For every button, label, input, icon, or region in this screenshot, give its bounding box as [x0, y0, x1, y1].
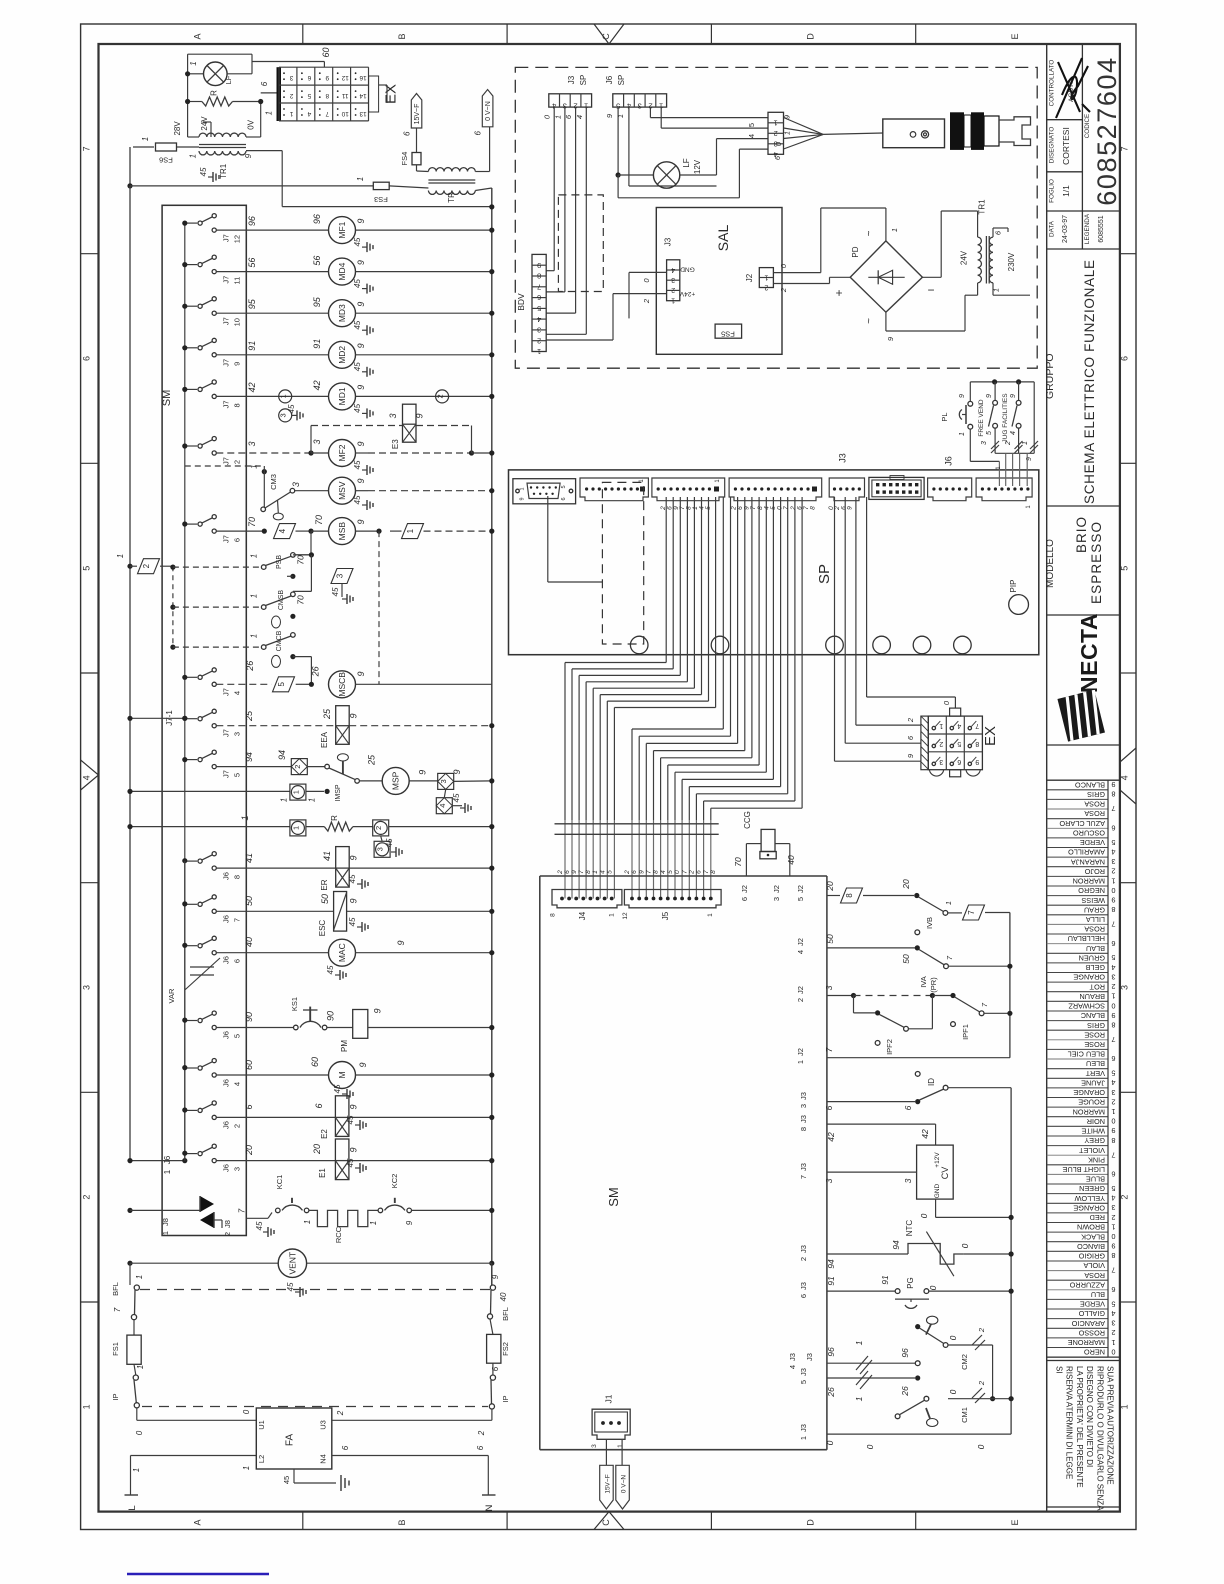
switch contact: [185, 264, 197, 266]
ground net 45: [362, 504, 367, 506]
svg-text:ROUGE: ROUGE: [1078, 1098, 1105, 1107]
svg-text:45: 45: [353, 403, 362, 412]
SP connector header 4: [729, 478, 822, 501]
svg-text:96: 96: [312, 214, 322, 224]
svg-text:1: 1: [1111, 1222, 1115, 1231]
svg-text:6: 6: [1120, 356, 1130, 361]
svg-text:2: 2: [779, 287, 788, 293]
SP mounting holes: [630, 636, 648, 654]
svg-text:9: 9: [415, 413, 425, 418]
motor MD2: [329, 341, 356, 368]
ground net 45: [362, 412, 367, 414]
wire IP to FA U1: [136, 1408, 138, 1420]
svg-text:9: 9: [356, 385, 366, 390]
svg-text:PINK: PINK: [1088, 1155, 1105, 1164]
svg-text:9: 9: [356, 519, 366, 524]
svg-text:50: 50: [320, 894, 330, 904]
svg-text:2: 2: [799, 1257, 808, 1261]
terminal N wire from FA N4: [332, 1455, 489, 1457]
svg-text:SM: SM: [161, 390, 173, 407]
svg-text:3: 3: [1111, 857, 1115, 866]
svg-text:1: 1: [249, 594, 258, 598]
svg-text:EEA: EEA: [320, 731, 329, 748]
switch contact: [185, 222, 197, 224]
terminal 3: [374, 841, 390, 857]
mains filter FA: [256, 1408, 332, 1469]
SP connector IDC: [869, 477, 924, 499]
svg-text:45: 45: [385, 838, 394, 847]
transformer TR1 control: [199, 133, 246, 137]
svg-text:2: 2: [1111, 867, 1115, 876]
svg-text:1: 1: [995, 466, 1002, 470]
svg-text:BLEU: BLEU: [1086, 1059, 1105, 1068]
svg-text:70: 70: [247, 517, 257, 527]
svg-text:NOIR: NOIR: [1087, 1117, 1105, 1126]
motor MD3: [329, 300, 356, 327]
svg-text:GRIS: GRIS: [1087, 790, 1105, 799]
svg-text:7: 7: [233, 918, 242, 922]
mechanical link BFL dashed: [140, 1289, 490, 1291]
svg-text:0: 0: [1111, 1232, 1115, 1241]
svg-text:40: 40: [786, 855, 796, 865]
svg-text:8: 8: [233, 403, 242, 407]
svg-text:6: 6: [314, 1103, 324, 1108]
switch IMSP cam: [337, 754, 348, 761]
svg-text:1: 1: [163, 1169, 172, 1174]
switch contact: [185, 1067, 197, 1069]
svg-text:J6: J6: [163, 1155, 172, 1164]
svg-text:5: 5: [986, 431, 993, 435]
ground net 45: [362, 469, 367, 471]
svg-text:24V: 24V: [200, 116, 209, 131]
svg-text:GREY: GREY: [1084, 1136, 1105, 1145]
svg-text:95: 95: [312, 296, 322, 307]
plug cable fan: [784, 118, 824, 135]
svg-text:L2: L2: [257, 1455, 266, 1463]
svg-text:1/1: 1/1: [1061, 185, 1071, 197]
svg-text:BIANCO: BIANCO: [1077, 1242, 1105, 1251]
svg-text:MODELLO: MODELLO: [1045, 539, 1056, 588]
svg-text:2: 2: [906, 717, 915, 723]
svg-text:CV: CV: [940, 1167, 950, 1180]
svg-text:ROSA: ROSA: [1084, 1271, 1105, 1280]
ground net 45: [362, 329, 367, 331]
svg-text:GRIS: GRIS: [1087, 1021, 1105, 1030]
svg-text:9: 9: [358, 1062, 368, 1067]
svg-text:45: 45: [353, 279, 362, 288]
title block column separator: [1046, 44, 1048, 1512]
svg-text:5: 5: [233, 773, 242, 777]
svg-text:ESPRESSO: ESPRESSO: [1089, 521, 1104, 604]
net flag 3: [331, 569, 353, 584]
svg-text:2: 2: [537, 336, 541, 345]
svg-text:1: 1: [291, 790, 300, 794]
indicator 1 on MD1 row: [279, 390, 292, 403]
svg-text:26: 26: [826, 1387, 836, 1398]
svg-text:60: 60: [321, 47, 331, 57]
svg-text:5: 5: [1111, 838, 1115, 847]
svg-text:A: A: [193, 33, 203, 39]
fuse FS4: [416, 128, 418, 153]
motor MSV: [329, 477, 356, 504]
svg-text:0 V~N: 0 V~N: [621, 1475, 628, 1494]
svg-text:ER: ER: [320, 879, 329, 890]
svg-text:94: 94: [244, 752, 254, 762]
svg-text:SP: SP: [816, 564, 833, 584]
svg-text:9: 9: [348, 713, 358, 718]
svg-text:12V: 12V: [693, 159, 702, 174]
svg-text:CCG: CCG: [743, 811, 752, 829]
svg-text:6: 6: [1111, 939, 1115, 948]
svg-text:20: 20: [244, 1145, 254, 1156]
svg-text:2: 2: [293, 765, 302, 769]
svg-text:BRIO: BRIO: [1074, 516, 1089, 553]
svg-text:2: 2: [774, 129, 778, 138]
svg-text:4: 4: [1120, 775, 1130, 780]
svg-text:42: 42: [247, 382, 257, 392]
svg-text:5: 5: [1111, 1299, 1115, 1308]
svg-text:6085551: 6085551: [1098, 215, 1105, 242]
svg-text:41: 41: [244, 853, 254, 863]
expansion block EX: [921, 716, 928, 770]
wire 28V tap: [188, 136, 199, 138]
svg-text:24-03-97: 24-03-97: [1062, 215, 1069, 243]
fan motor VENT: [127, 1261, 132, 1266]
svg-text:2: 2: [796, 998, 805, 1002]
svg-text:GND: GND: [934, 1183, 941, 1198]
svg-text:7: 7: [703, 870, 710, 874]
svg-text:1: 1: [356, 177, 365, 181]
svg-text:8: 8: [1111, 790, 1115, 799]
svg-text:LA PROPRIETA' DEL PRESENTE: LA PROPRIETA' DEL PRESENTE: [1075, 1366, 1084, 1488]
svg-text:GIALLO: GIALLO: [1078, 1309, 1105, 1318]
wire PD ~ bottom to TR1: [885, 312, 887, 331]
svg-text:(PR): (PR): [929, 977, 938, 993]
svg-text:GRUEN: GRUEN: [1079, 954, 1105, 963]
svg-text:SI: SI: [1055, 1366, 1064, 1374]
svg-text:4: 4: [671, 266, 675, 273]
transformer TR1 24V 230V: [978, 237, 982, 283]
svg-text:ROSE: ROSE: [1084, 1030, 1105, 1039]
svg-text:6: 6: [1111, 823, 1115, 832]
svg-text:91: 91: [826, 1276, 836, 1286]
svg-text:BFL: BFL: [501, 1307, 510, 1321]
svg-text:8: 8: [1111, 905, 1115, 914]
cam switch CM3: [262, 469, 267, 474]
switch contact: [185, 347, 197, 349]
svg-text:45: 45: [348, 874, 357, 883]
svg-text:6: 6: [233, 538, 242, 542]
dashed enclosure BDV group: [515, 67, 1037, 368]
svg-text:2: 2: [233, 460, 242, 464]
svg-text:E3: E3: [391, 439, 400, 449]
svg-text:L: L: [127, 1505, 138, 1510]
ground net 45: [362, 288, 367, 290]
svg-text:7: 7: [681, 870, 688, 874]
ground net 45: [342, 1093, 347, 1095]
svg-text:VERT: VERT: [1085, 1069, 1105, 1078]
svg-text:3: 3: [638, 102, 642, 111]
svg-text:9: 9: [356, 260, 366, 265]
SP connector header 3: [652, 478, 725, 501]
svg-text:J7: J7: [222, 276, 231, 284]
svg-text:4: 4: [1111, 1194, 1115, 1203]
svg-text:IVA: IVA: [919, 976, 928, 988]
svg-text:CODICE: CODICE: [1084, 114, 1091, 139]
net flag 1: [402, 524, 424, 539]
svg-text:8: 8: [585, 870, 592, 874]
svg-text:MD4: MD4: [337, 262, 347, 280]
svg-text:3: 3: [1111, 1088, 1115, 1097]
svg-text:BFL: BFL: [111, 1282, 120, 1296]
svg-text:2: 2: [939, 740, 943, 747]
ground net 45: [263, 1231, 268, 1233]
svg-text:IVB: IVB: [925, 917, 934, 929]
svg-text:2: 2: [436, 394, 445, 398]
svg-text:230V: 230V: [1007, 252, 1016, 271]
svg-text:26: 26: [900, 1386, 910, 1397]
svg-text:AZZURRO: AZZURRO: [1069, 1280, 1105, 1289]
svg-text:PSB: PSB: [276, 555, 283, 569]
cam switch CM2: [927, 1316, 938, 1324]
svg-text:8: 8: [710, 870, 717, 874]
svg-text:10: 10: [233, 318, 242, 326]
svg-text:1: 1: [799, 1436, 808, 1440]
svg-text:0: 0: [825, 1440, 835, 1445]
svg-text:J3: J3: [799, 1424, 808, 1432]
centre fold mark top: [594, 24, 624, 44]
svg-text:E: E: [1010, 33, 1020, 39]
svg-text:5: 5: [1111, 1184, 1115, 1193]
svg-text:90: 90: [326, 1011, 336, 1021]
svg-text:1: 1: [617, 1444, 624, 1448]
svg-text:9: 9: [1111, 1242, 1115, 1251]
svg-text:ROSE: ROSE: [1084, 1040, 1105, 1049]
svg-text:9: 9: [356, 478, 366, 483]
svg-text:PG: PG: [906, 1277, 915, 1289]
svg-text:J3: J3: [805, 1353, 814, 1361]
switch IVB: [914, 893, 919, 898]
svg-text:BLANC: BLANC: [1081, 1011, 1105, 1020]
svg-text:2: 2: [142, 563, 151, 568]
svg-text:EX: EX: [982, 726, 999, 746]
svg-text:1: 1: [1022, 441, 1029, 445]
connector J4: [552, 890, 622, 908]
svg-text:45: 45: [348, 917, 357, 926]
relay coil PM: [353, 1010, 368, 1039]
svg-text:28V: 28V: [173, 121, 182, 136]
svg-text:BLAU: BLAU: [1086, 944, 1105, 953]
terminal 2: [291, 759, 307, 775]
svg-text:2: 2: [477, 1430, 486, 1436]
svg-text:8: 8: [1111, 1251, 1115, 1260]
connector DB9: [513, 479, 576, 504]
svg-text:BLACK: BLACK: [1081, 1232, 1105, 1241]
ground net 45: [362, 371, 367, 373]
svg-text:GRIGIO: GRIGIO: [1078, 1252, 1105, 1261]
svg-text:SM: SM: [606, 1187, 621, 1207]
svg-text:41: 41: [322, 851, 332, 861]
svg-text:9: 9: [356, 302, 366, 307]
svg-text:0: 0: [135, 1430, 144, 1435]
svg-text:9: 9: [1010, 394, 1017, 398]
svg-text:NTC: NTC: [905, 1220, 914, 1237]
svg-text:7: 7: [1111, 920, 1115, 929]
switch IP left: [133, 1375, 138, 1380]
svg-text:N4: N4: [319, 1454, 328, 1464]
FA ground: [293, 1469, 295, 1483]
motor MSB: [329, 518, 356, 545]
SP connector J6: [976, 478, 1032, 501]
row MSV net 3: [295, 490, 329, 492]
svg-text:1: 1: [406, 528, 415, 533]
svg-text:5: 5: [233, 1034, 242, 1038]
svg-text:45: 45: [452, 793, 461, 802]
svg-text:9: 9: [356, 441, 366, 446]
svg-text:NEGRO: NEGRO: [1078, 886, 1105, 895]
svg-text:26: 26: [245, 661, 255, 672]
svg-text:J2: J2: [796, 938, 805, 946]
svg-text:3: 3: [824, 1178, 834, 1183]
switch contact: [185, 305, 197, 307]
svg-text:1: 1: [854, 1340, 864, 1345]
svg-text:MARRON: MARRON: [1073, 1107, 1105, 1116]
svg-text:9: 9: [1111, 1126, 1115, 1135]
svg-text:4: 4: [1111, 1309, 1115, 1318]
flag 0 V~N bottom: [616, 1465, 630, 1509]
svg-text:1: 1: [280, 798, 289, 802]
svg-text:A: A: [193, 1519, 203, 1525]
svg-text:96: 96: [826, 1347, 836, 1357]
svg-text:4: 4: [660, 870, 667, 874]
switch IPF1: [955, 997, 980, 1012]
svg-text:9: 9: [975, 758, 979, 765]
svg-text:5: 5: [799, 1380, 808, 1384]
svg-text:50: 50: [244, 896, 254, 906]
EX top tab: [950, 708, 961, 716]
svg-text:45: 45: [346, 1158, 355, 1167]
legend number column divider: [1107, 780, 1109, 1357]
svg-text:6: 6: [740, 897, 749, 901]
svg-text:2: 2: [671, 286, 675, 293]
svg-text:J3: J3: [799, 1282, 808, 1290]
svg-text:9: 9: [1111, 780, 1115, 789]
switch contact: [185, 903, 197, 905]
svg-text:9: 9: [348, 1147, 358, 1152]
svg-text:J2: J2: [796, 1048, 805, 1056]
svg-text:9: 9: [1111, 896, 1115, 905]
svg-text:3: 3: [772, 897, 781, 901]
svg-text:26: 26: [311, 666, 321, 677]
svg-text:2: 2: [624, 870, 631, 875]
svg-text:94: 94: [891, 1240, 901, 1250]
svg-text:45: 45: [346, 1115, 355, 1124]
svg-text:12: 12: [233, 235, 242, 243]
svg-text:15V~F: 15V~F: [605, 1474, 612, 1493]
svg-text:45: 45: [199, 167, 208, 176]
svg-text:ESC: ESC: [318, 920, 327, 937]
svg-text:8: 8: [975, 740, 979, 747]
switch contact: [185, 523, 197, 525]
svg-text:RED: RED: [1090, 1213, 1105, 1222]
svg-text:OSCURO: OSCURO: [1073, 829, 1105, 838]
svg-text:60: 60: [310, 1057, 320, 1067]
CV output 0: [935, 1199, 937, 1217]
svg-text:J3: J3: [567, 75, 576, 84]
switch IP right: [490, 1375, 495, 1380]
svg-text:6: 6: [903, 1105, 913, 1110]
svg-text:1: 1: [279, 394, 288, 398]
svg-text:3: 3: [336, 573, 345, 578]
svg-text:1: 1: [136, 1365, 145, 1369]
svg-text:VERDE: VERDE: [1080, 1300, 1105, 1309]
svg-text:3: 3: [939, 758, 943, 765]
svg-text:IPF2: IPF2: [885, 1039, 894, 1055]
svg-text:NARANJA: NARANJA: [1071, 857, 1105, 866]
svg-text:2: 2: [764, 284, 768, 291]
svg-text:6: 6: [561, 497, 567, 500]
svg-text:CM3: CM3: [269, 474, 278, 490]
svg-text:7: 7: [113, 1307, 122, 1312]
svg-text:MD2: MD2: [337, 346, 347, 364]
svg-text:VIOLA: VIOLA: [1083, 1261, 1105, 1270]
svg-text:AGUTI: AGUTI: [1068, 82, 1075, 102]
svg-text:8: 8: [325, 92, 329, 99]
svg-text:PM: PM: [340, 1040, 349, 1052]
terminal 1: [290, 820, 306, 836]
svg-text:1: 1: [944, 901, 953, 905]
heater ER: [336, 847, 350, 888]
svg-text:1: 1: [249, 554, 258, 558]
EX bottom bumps: [929, 770, 943, 776]
svg-text:SCHWARZ: SCHWARZ: [1068, 1002, 1105, 1011]
svg-text:RCC: RCC: [334, 1226, 343, 1243]
svg-text:TR: TR: [447, 192, 456, 203]
service switches rail: [970, 381, 1034, 383]
ground net 45: [357, 926, 362, 928]
svg-text:RISERVA ATERMINI DI LEGGE: RISERVA ATERMINI DI LEGGE: [1065, 1366, 1074, 1479]
svg-text:7: 7: [238, 1208, 247, 1213]
svg-text:CM2: CM2: [960, 1354, 969, 1370]
svg-text:SP: SP: [579, 75, 588, 86]
svg-text:3: 3: [671, 276, 675, 283]
svg-text:MSB: MSB: [337, 522, 347, 541]
svg-text:6: 6: [341, 1445, 350, 1450]
svg-text:25: 25: [322, 708, 332, 720]
svg-text:6: 6: [307, 74, 311, 81]
svg-text:J8: J8: [223, 1220, 232, 1228]
svg-text:45: 45: [333, 1084, 342, 1093]
svg-text:8: 8: [810, 506, 817, 510]
switch CMCB: [170, 645, 175, 650]
connector J5: [624, 890, 721, 908]
svg-text:70: 70: [296, 555, 306, 565]
svg-text:9: 9: [571, 870, 578, 874]
svg-text:4: 4: [233, 1082, 242, 1086]
svg-text:25: 25: [244, 710, 254, 722]
svg-text:45: 45: [353, 495, 362, 504]
svg-text:42: 42: [312, 380, 322, 390]
svg-text:HELLBLAU: HELLBLAU: [1068, 934, 1105, 943]
motor MD4: [329, 258, 356, 285]
svg-text:9: 9: [348, 855, 358, 860]
svg-text:1: 1: [1111, 1338, 1115, 1347]
svg-text:0: 0: [976, 1444, 986, 1449]
net 70 drop to PSB chain: [310, 531, 312, 555]
wire 0V tap: [246, 136, 261, 138]
level sensor KS1: [294, 1025, 299, 1030]
svg-text:VIOLET: VIOLET: [1079, 1146, 1105, 1155]
